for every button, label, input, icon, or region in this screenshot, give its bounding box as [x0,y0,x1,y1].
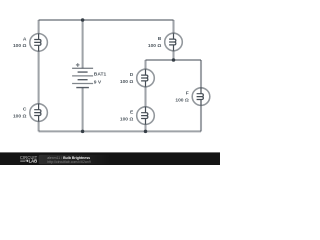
svg-text:http://circuitlab.com/c/62an9: http://circuitlab.com/c/62an9 [47,160,91,164]
junction: bottom rail / lamp E bottom [144,130,148,134]
junction: top rail / battery positive [81,18,85,22]
wire: lamp F bottom lead [200,105,202,131]
label: lamp C value "100 &#937;" [13,113,27,119]
wire: lamp A bottom to lamp C top [38,51,40,104]
svg-text:E: E [130,110,134,116]
wire: top rail [39,19,174,21]
label: lamp B value "100 &#937;" [148,43,162,49]
svg-text:F: F [186,91,189,97]
label: lamp A name "A" [23,37,27,43]
wire: battery BAT1 positive lead [82,20,84,68]
svg-text:A: A [23,37,27,43]
lamp F [192,88,210,106]
label: lamp E value "100 &#937;" [120,116,134,122]
label: battery value "9 V" [94,79,102,85]
svg-text:100 Ω: 100 Ω [120,116,134,122]
wire: lamp A top lead [38,20,40,34]
wire: lamp D bottom to lamp E top [144,87,146,107]
label: lamp C name "C" [23,107,27,113]
wire: lamp F top lead [200,60,202,88]
svg-text:9 V: 9 V [94,79,102,85]
junction: mid rail / lamp B bottom [172,58,176,62]
label: lamp F value "100 &#937;" [175,97,189,103]
label: battery name "BAT1" [94,72,107,78]
lamp A [30,34,48,52]
label: lamp A value "100 &#937;" [13,43,27,49]
wire: lamp B bottom lead [172,51,174,60]
label: lamp F name "F" [186,91,189,97]
lamp C [30,104,48,122]
svg-text:100 Ω: 100 Ω [148,43,162,49]
svg-text:100 Ω: 100 Ω [175,97,189,103]
label: lamp D value "100 &#937;" [120,79,134,85]
svg-text:D: D [130,72,134,78]
lamp B [165,33,183,51]
junction: bottom rail / battery negative [81,130,85,134]
svg-text:BAT1: BAT1 [94,72,107,78]
watermark bar [0,152,220,165]
svg-text:100 Ω: 100 Ω [120,79,134,85]
wire: mid rail [146,59,202,61]
wire: lamp E bottom lead [144,124,146,131]
svg-text:B: B [158,36,162,42]
svg-text:100 Ω: 100 Ω [13,43,27,49]
wire: lamp B top lead [172,20,174,33]
wire: lamp D top lead [144,60,146,69]
wire: battery BAT1 negative lead [82,88,84,132]
battery BAT1 plates [72,68,93,87]
lamp D [137,69,155,87]
svg-text:100 Ω: 100 Ω [13,113,27,119]
lamp E [137,107,155,125]
watermark logo LAB [20,160,27,161]
wire: lamp C bottom lead [38,121,40,131]
svg-text:C: C [23,107,27,113]
label: lamp D name "D" [130,72,134,78]
svg-text:LAB: LAB [29,158,38,163]
wire: bottom rail [39,130,201,132]
battery BAT1 plus sign [76,63,80,66]
label: lamp E name "E" [130,110,134,116]
label: lamp B name "B" [158,36,162,42]
